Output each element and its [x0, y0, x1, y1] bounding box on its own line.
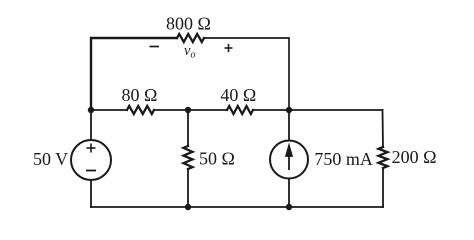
svg-text:200 Ω: 200 Ω	[392, 147, 437, 167]
svg-text:40 Ω: 40 Ω	[220, 85, 256, 105]
svg-text:80 Ω: 80 Ω	[122, 85, 158, 105]
wire top-right to right vertical of top loop	[204, 38, 289, 110]
wire far-right vertical lower	[382, 168, 384, 207]
junction node dot middle (50ohm top)	[185, 107, 191, 113]
svg-text:vo: vo	[184, 43, 195, 61]
junction node dot left middle	[88, 107, 94, 113]
junction node dot right middle (current source top)	[286, 107, 292, 113]
wire bottom rail	[91, 206, 383, 208]
voltage source minus sign	[86, 170, 96, 172]
wire middle row segment left	[91, 109, 127, 111]
resistor R 50ohm zigzag	[184, 146, 193, 169]
svg-text:50 Ω: 50 Ω	[199, 148, 235, 168]
voltage source plus sign	[87, 144, 96, 153]
voltage source V1 50V circle	[71, 140, 111, 180]
label minus polarity of vo	[150, 46, 160, 48]
svg-text:750 mA: 750 mA	[314, 149, 373, 169]
wire current source branch upper	[288, 110, 290, 141]
resistor R 800ohm zigzag	[177, 34, 204, 42]
wire middle row segment between 80ohm and 40ohm	[154, 109, 227, 111]
wire 50ohm branch upper	[187, 110, 189, 146]
current source arrow	[286, 146, 292, 170]
wire left branch below 50V source	[90, 180, 92, 207]
junction node dot bottom 50ohm	[185, 204, 191, 210]
junction node dot bottom current source	[286, 204, 292, 210]
wire current source branch lower	[288, 179, 290, 208]
resistor R 40ohm zigzag	[227, 106, 253, 114]
wire 50ohm branch lower	[187, 169, 189, 207]
svg-text:800 Ω: 800 Ω	[166, 13, 211, 33]
resistor R 80ohm zigzag	[127, 106, 154, 114]
wire left branch above 50V source	[90, 110, 92, 140]
wire middle row segment right to far-right corner	[253, 109, 383, 111]
current source I1 750mA circle	[270, 141, 308, 179]
wire far-right vertical upper	[382, 110, 385, 147]
label plus polarity of vo	[225, 44, 233, 52]
resistor R 200ohm zigzag	[379, 147, 388, 168]
svg-text:50 V: 50 V	[33, 149, 68, 169]
wire top-left vertical (node a to top loop)	[91, 38, 177, 110]
